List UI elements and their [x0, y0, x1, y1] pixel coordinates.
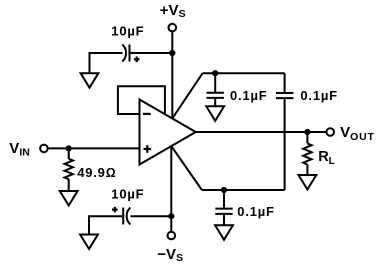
node VIN terminal: [40, 145, 48, 153]
node +VS terminal: [169, 24, 177, 32]
junction dot VIN: [66, 145, 72, 151]
wire op-amp output: [196, 131, 327, 133]
wire op-amp V- pin diagonal to bottom bypass rail: [171, 146, 202, 190]
junction dot bottom rail: [221, 187, 227, 193]
wire bottom 10uF to ground corner: [89, 216, 122, 234]
svg-text:10µF: 10µF: [111, 187, 144, 202]
wire top bypass rail: [203, 72, 285, 74]
junction dot -VS branch: [168, 213, 174, 219]
svg-text:49.9Ω: 49.9Ω: [77, 165, 116, 180]
junction dot top rail: [212, 70, 218, 76]
ground under C5: [215, 225, 233, 240]
op-amp minus input marker: [143, 113, 151, 115]
wire junction to bottom 10uF cap: [131, 215, 172, 217]
svg-text:0.1µF: 0.1µF: [237, 204, 275, 219]
svg-text:0.1µF: 0.1µF: [230, 88, 268, 103]
wire op-amp V+ pin diagonal to top bypass rail: [172, 73, 202, 118]
node -VS terminal: [168, 232, 176, 240]
op-amp plus input marker: [144, 145, 152, 153]
op-amp U1: [140, 100, 196, 165]
junction dot +VS branch: [169, 50, 175, 56]
wire feedback loop from inverting input over the top: [118, 86, 165, 114]
capacitor C1 plus polarity mark: [134, 57, 140, 63]
ground under R1: [60, 191, 78, 206]
capacitor C5 0.1uF bottom: [223, 190, 225, 208]
capacitor C2 0.1uF top-left: [214, 73, 216, 92]
wire bottom bypass rail: [202, 189, 285, 191]
wire +VS vertical supply to op-amp V+ pin: [171, 32, 173, 119]
wire junction to top 10uF cap: [130, 52, 172, 54]
ground under RL: [299, 175, 317, 190]
svg-text:0.1µF: 0.1µF: [300, 88, 338, 103]
wire op-amp V- pin vertical supply: [170, 146, 172, 232]
capacitor C3 0.1uF series between rails: [284, 73, 286, 92]
ground under C2: [206, 106, 224, 121]
wire top 10uF to ground corner: [90, 53, 123, 73]
ground bottom-left: [80, 235, 98, 250]
junction dot output: [304, 129, 310, 135]
resistor R1 49.9ohm: [68, 148, 70, 158]
capacitor C1 10uF polarized top: [129, 45, 131, 62]
svg-text:10µF: 10µF: [111, 24, 144, 39]
ground top-left: [81, 73, 99, 88]
wire VIN to plus input: [48, 147, 140, 149]
capacitor C4 plus polarity mark: [112, 207, 118, 213]
node VOUT terminal: [326, 128, 334, 136]
resistor RL load: [306, 132, 308, 143]
capacitor C4 10uF polarized bottom: [122, 208, 124, 225]
